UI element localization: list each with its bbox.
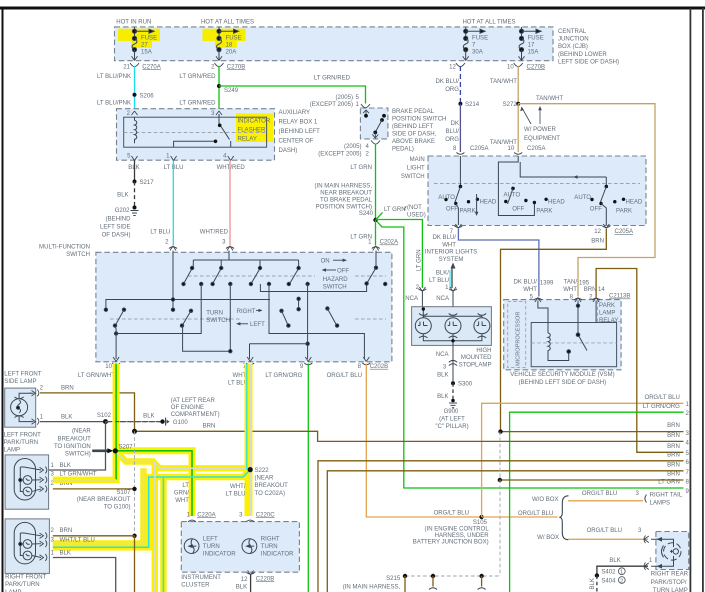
relay bottom pins 5 1 4 bbox=[132, 156, 138, 161]
svg-text:C270A: C270A bbox=[142, 64, 161, 70]
svg-text:PARK: PARK bbox=[599, 303, 615, 309]
svg-text:BRN: BRN bbox=[60, 528, 73, 534]
svg-text:BLK: BLK bbox=[60, 463, 71, 469]
svg-text:C2113B: C2113B bbox=[609, 294, 630, 300]
svg-text:LT GRN: LT GRN bbox=[417, 249, 423, 271]
ground G202 bbox=[133, 206, 137, 210]
svg-text:BRN: BRN bbox=[667, 452, 680, 458]
svg-text:C270B: C270B bbox=[527, 64, 546, 70]
svg-text:S206: S206 bbox=[140, 93, 155, 99]
svg-text:OFF: OFF bbox=[337, 269, 349, 275]
S207 to C220A yellow halo bbox=[115, 451, 192, 516]
svg-text:(NEAR: (NEAR bbox=[72, 429, 91, 435]
svg-text:HOT AT ALL TIMES: HOT AT ALL TIMES bbox=[201, 20, 254, 26]
svg-text:SWITCH): SWITCH) bbox=[65, 452, 91, 458]
S215 dashed splice linkage bbox=[499, 432, 501, 576]
svg-text:TURN: TURN bbox=[206, 310, 223, 316]
high mounted stoplamp box bbox=[412, 307, 492, 346]
splice S105 bbox=[479, 515, 483, 519]
wire BLK S102 down to left park/turn pin 1 bbox=[44, 422, 106, 470]
relay pin 3 arrow bbox=[216, 111, 222, 115]
svg-text:14: 14 bbox=[598, 287, 605, 293]
svg-text:S402: S402 bbox=[601, 570, 616, 576]
hazard blades bbox=[184, 268, 192, 283]
MLS pin 12 C205A bbox=[602, 226, 610, 228]
svg-text:PARK/STOP/: PARK/STOP/ bbox=[651, 580, 687, 586]
wire BLK from relay pin 5 bbox=[134, 161, 136, 182]
svg-text:HIGH: HIGH bbox=[476, 348, 491, 354]
svg-text:C205A: C205A bbox=[527, 146, 546, 152]
svg-text:PARK: PARK bbox=[536, 209, 552, 215]
svg-text:(NOT: (NOT bbox=[407, 205, 422, 211]
svg-text:S249: S249 bbox=[224, 88, 239, 94]
wire ORG/LT BLU pin 8 to S105 bbox=[366, 364, 481, 518]
svg-text:ABOVE BRAKE: ABOVE BRAKE bbox=[392, 139, 435, 145]
svg-text:HEAD: HEAD bbox=[480, 200, 497, 206]
svg-text:TO G100): TO G100) bbox=[104, 505, 131, 511]
wire LT GRN/RED from fuse 18 bbox=[218, 66, 220, 110]
svg-text:LT GRN: LT GRN bbox=[658, 480, 680, 486]
svg-text:(AT LEFT REAR: (AT LEFT REAR bbox=[171, 398, 216, 404]
svg-text:(BEHIND LOWER: (BEHIND LOWER bbox=[558, 52, 607, 58]
svg-text:PARK: PARK bbox=[616, 209, 632, 215]
splice S222 bbox=[248, 467, 253, 472]
svg-text:LAMPS: LAMPS bbox=[650, 500, 671, 506]
cluster pin 12 C220B bbox=[247, 571, 255, 576]
svg-text:POSITION SWITCH): POSITION SWITCH) bbox=[316, 205, 372, 211]
svg-text:BRN: BRN bbox=[584, 287, 597, 293]
svg-text:C202B: C202B bbox=[370, 364, 389, 370]
svg-text:ORG: ORG bbox=[445, 87, 459, 93]
right rear park/stop/turn lamp bbox=[656, 532, 689, 570]
main light switch bbox=[428, 156, 646, 226]
svg-text:C220C: C220C bbox=[256, 512, 275, 518]
svg-text:LT GRN/ORG: LT GRN/ORG bbox=[265, 373, 302, 379]
svg-text:INSTRUMENT: INSTRUMENT bbox=[181, 575, 221, 581]
svg-text:NCA: NCA bbox=[436, 296, 450, 302]
svg-text:LAMP: LAMP bbox=[4, 448, 20, 454]
internal wiring bbox=[104, 251, 387, 360]
exit 7 BRN from off-page bbox=[327, 471, 683, 592]
svg-text:TAN/WHT: TAN/WHT bbox=[536, 96, 563, 102]
splice S214 bbox=[458, 102, 462, 106]
svg-text:S215: S215 bbox=[386, 576, 401, 582]
svg-text:OF ENGINE: OF ENGINE bbox=[171, 405, 204, 411]
svg-text:USED): USED) bbox=[407, 213, 426, 219]
svg-text:BRN: BRN bbox=[61, 386, 74, 392]
stoplamp bulb 3 bbox=[474, 314, 490, 338]
bus B bbox=[106, 300, 270, 310]
wire LT GRN S240 down to C202A pin 1 bbox=[375, 220, 377, 246]
svg-text:C220A: C220A bbox=[197, 512, 216, 518]
svg-text:BREAKOUT: BREAKOUT bbox=[58, 436, 92, 442]
splice S240 bbox=[373, 218, 377, 222]
fuse F17 15A bbox=[519, 27, 542, 61]
svg-text:LEFT FRONT: LEFT FRONT bbox=[4, 372, 41, 378]
connector pin 12 bbox=[456, 63, 465, 67]
svg-text:TAN/WHT: TAN/WHT bbox=[490, 79, 517, 85]
bus C right bbox=[260, 284, 366, 292]
svg-text:DK BLU/: DK BLU/ bbox=[435, 79, 459, 85]
svg-text:SYSTEM: SYSTEM bbox=[439, 257, 464, 263]
svg-text:AUTO: AUTO bbox=[503, 193, 520, 199]
svg-text:LT GRN/WHT: LT GRN/WHT bbox=[78, 373, 115, 379]
switch group 2 bbox=[498, 156, 565, 216]
connector C270B pin 10 bbox=[514, 63, 523, 67]
fuse F27 15A bbox=[132, 27, 155, 61]
WHT/LT BLU pin7 down to S222 halo bbox=[245, 364, 253, 517]
svg-text:C202A: C202A bbox=[380, 240, 399, 246]
svg-text:HAZARD: HAZARD bbox=[323, 277, 348, 283]
wire BRN side lamp pin2 right/down bbox=[40, 393, 135, 431]
svg-text:"C" PILLAR): "C" PILLAR) bbox=[435, 424, 468, 430]
svg-text:BLK: BLK bbox=[117, 193, 128, 199]
svg-text:15A: 15A bbox=[141, 50, 153, 56]
svg-text:S214: S214 bbox=[465, 102, 480, 108]
svg-text:OFF: OFF bbox=[446, 207, 458, 213]
left turn indicator bbox=[184, 539, 199, 554]
switch group 3 bbox=[520, 162, 643, 225]
svg-text:OFF: OFF bbox=[590, 207, 602, 213]
svg-text:ORG/LT BLU: ORG/LT BLU bbox=[587, 528, 622, 534]
svg-text:(BEHIND LEFT SIDE OF DASH): (BEHIND LEFT SIDE OF DASH) bbox=[519, 380, 607, 386]
wire LT GRN down to S240 bbox=[375, 144, 377, 221]
svg-text:C205A: C205A bbox=[470, 146, 489, 152]
svg-text:FUSE: FUSE bbox=[528, 36, 544, 42]
svg-text:G100: G100 bbox=[173, 420, 188, 426]
svg-text:S222: S222 bbox=[255, 468, 270, 474]
svg-text:MULTI-FUNCTION: MULTI-FUNCTION bbox=[39, 244, 90, 250]
svg-text:S272: S272 bbox=[503, 102, 518, 108]
svg-text:OF DASH): OF DASH) bbox=[102, 233, 131, 239]
svg-text:NEAR BREAKOUT: NEAR BREAKOUT bbox=[320, 190, 372, 196]
auxiliary relay box 1 bbox=[117, 109, 275, 161]
svg-text:POSITION SWITCH: POSITION SWITCH bbox=[392, 117, 446, 123]
right turn indicator bbox=[242, 539, 257, 554]
svg-text:DASH): DASH) bbox=[279, 148, 298, 154]
svg-text:LT BLU: LT BLU bbox=[150, 230, 170, 236]
wire LT GRN/WHT pin10 down to S207 (yellow halo) bbox=[113, 364, 120, 484]
svg-text:17: 17 bbox=[528, 43, 535, 49]
svg-text:LT BLU/PNK: LT BLU/PNK bbox=[97, 74, 131, 80]
svg-text:TURN: TURN bbox=[203, 544, 220, 550]
svg-text:ORG/LT BLU: ORG/LT BLU bbox=[644, 395, 679, 401]
wire BRN lamp pin2 to S107 bbox=[53, 488, 135, 490]
svg-text:NCA: NCA bbox=[436, 352, 450, 358]
svg-text:BATTERY JUNCTION BOX): BATTERY JUNCTION BOX) bbox=[413, 539, 489, 545]
MLS pin 7 bbox=[454, 226, 462, 228]
svg-text:BRN: BRN bbox=[203, 423, 216, 429]
svg-text:TO C202A): TO C202A) bbox=[255, 491, 285, 497]
svg-text:WHT/LT BLU: WHT/LT BLU bbox=[60, 537, 95, 543]
svg-text:10: 10 bbox=[507, 146, 514, 152]
svg-text:(IN ENGINE CONTROL: (IN ENGINE CONTROL bbox=[425, 526, 490, 532]
connector C270A pin 21 bbox=[130, 63, 139, 67]
svg-text:BLU/: BLU/ bbox=[446, 129, 460, 135]
splice S300 bbox=[451, 381, 455, 385]
svg-text:WHT: WHT bbox=[175, 498, 189, 504]
svg-text:1399: 1399 bbox=[540, 281, 554, 287]
svg-text:SWITCH: SWITCH bbox=[206, 318, 230, 324]
svg-text:DK BLU/: DK BLU/ bbox=[432, 235, 456, 241]
splice S272 bbox=[516, 102, 520, 106]
svg-text:1: 1 bbox=[620, 570, 623, 576]
svg-text:WHT/RED: WHT/RED bbox=[200, 230, 229, 236]
svg-text:JUNCTION: JUNCTION bbox=[558, 37, 589, 43]
svg-text:21: 21 bbox=[123, 64, 130, 70]
svg-text:(2005): (2005) bbox=[336, 95, 353, 101]
fuse 18 highlight bbox=[203, 29, 246, 41]
svg-text:LT BLU/PNK: LT BLU/PNK bbox=[97, 101, 131, 107]
svg-text:30A: 30A bbox=[472, 50, 484, 56]
svg-text:S240: S240 bbox=[359, 211, 374, 217]
svg-text:LT BLU: LT BLU bbox=[226, 492, 246, 498]
svg-text:18: 18 bbox=[226, 43, 233, 49]
wire BRN VSM pin2 up/right/down to exit 5 bbox=[596, 269, 683, 453]
svg-text:27: 27 bbox=[141, 43, 148, 49]
wire WHT/RED from relay pin 4 bbox=[229, 161, 231, 246]
svg-text:ORG/LT BLU: ORG/LT BLU bbox=[327, 373, 362, 379]
svg-text:S207: S207 bbox=[119, 444, 134, 450]
svg-text:12: 12 bbox=[594, 229, 601, 235]
svg-text:W/O BOX: W/O BOX bbox=[532, 497, 559, 503]
svg-text:BLK/: BLK/ bbox=[436, 271, 449, 277]
svg-text:FUSE: FUSE bbox=[226, 36, 242, 42]
dots rows bbox=[190, 266, 193, 269]
indicator flasher relay (inner) bbox=[124, 117, 267, 147]
svg-text:12: 12 bbox=[449, 64, 456, 70]
svg-text:HEAD: HEAD bbox=[548, 200, 565, 206]
exit 2 LT GRN/ORG bbox=[510, 412, 684, 592]
svg-text:ORG/LT BLU: ORG/LT BLU bbox=[434, 511, 469, 517]
exit 6 BRN from off-page bbox=[318, 461, 684, 592]
svg-text:SIDE LAMP: SIDE LAMP bbox=[4, 379, 36, 385]
svg-text:LT GRN/RED: LT GRN/RED bbox=[314, 76, 351, 82]
fuse F7 30A bbox=[463, 27, 485, 61]
svg-text:SWITCH: SWITCH bbox=[401, 174, 425, 180]
svg-text:HOT IN RUN: HOT IN RUN bbox=[116, 20, 151, 26]
svg-text:G900: G900 bbox=[444, 409, 459, 415]
svg-text:15A: 15A bbox=[528, 50, 540, 56]
svg-text:SIDE OF DASH,: SIDE OF DASH, bbox=[392, 132, 437, 138]
svg-text:(NEAR BREAKOUT: (NEAR BREAKOUT bbox=[77, 497, 131, 503]
svg-text:PARK: PARK bbox=[460, 209, 476, 215]
svg-text:ORG/LT BLU: ORG/LT BLU bbox=[518, 511, 553, 517]
svg-text:CENTRAL: CENTRAL bbox=[558, 29, 587, 35]
svg-text:ON: ON bbox=[321, 259, 330, 265]
svg-text:INTERIOR LIGHTS: INTERIOR LIGHTS bbox=[425, 249, 477, 255]
svg-text:DK BLU/: DK BLU/ bbox=[513, 280, 537, 286]
svg-text:ORG/LT BLU: ORG/LT BLU bbox=[582, 491, 617, 497]
splice S107 bbox=[132, 487, 136, 491]
svg-text:(AT LEFT: (AT LEFT bbox=[439, 416, 465, 422]
svg-text:EQUIPMENT: EQUIPMENT bbox=[524, 136, 560, 142]
splice S249 bbox=[217, 84, 221, 88]
vehicle security module VSM bbox=[504, 300, 621, 370]
pin3 bus A bbox=[228, 251, 230, 261]
svg-text:S105: S105 bbox=[473, 520, 488, 526]
svg-text:SWITCH: SWITCH bbox=[323, 284, 347, 290]
right tail lamps W/O BOX branch bbox=[568, 500, 643, 502]
svg-text:TURN: TURN bbox=[261, 544, 278, 550]
svg-text:RELAY BOX 1: RELAY BOX 1 bbox=[279, 120, 318, 126]
svg-text:W/ POWER: W/ POWER bbox=[524, 127, 557, 133]
svg-text:GRN/: GRN/ bbox=[174, 491, 189, 497]
svg-text:BRN: BRN bbox=[667, 472, 680, 478]
wire cores bbox=[115, 364, 117, 480]
svg-text:BLK: BLK bbox=[609, 558, 620, 564]
splice S206 bbox=[133, 93, 137, 97]
svg-text:S102: S102 bbox=[97, 413, 112, 419]
wire LT GRN/RED to brake pedal position switch bbox=[219, 86, 366, 104]
svg-text:INDICATOR: INDICATOR bbox=[261, 552, 294, 558]
wire TAN/WHT from S272 to right bbox=[518, 104, 655, 297]
relay pin 2 arrow bbox=[132, 111, 138, 115]
svg-text:(BEHIND LEFT: (BEHIND LEFT bbox=[279, 129, 321, 135]
park lamp relay label bbox=[598, 301, 621, 322]
wire DK BLU/ORG solid to MLS pin 8 bbox=[459, 104, 461, 152]
svg-text:MOUNTED: MOUNTED bbox=[461, 355, 492, 361]
wire LT GRN S240 branch to exit 9 bbox=[377, 222, 684, 489]
central junction box CJB bbox=[115, 27, 554, 61]
svg-text:C220B: C220B bbox=[256, 576, 274, 582]
svg-text:2: 2 bbox=[620, 578, 623, 584]
W/ BOX branch to right rear lamp bbox=[568, 538, 648, 540]
svg-text:LEFT: LEFT bbox=[250, 322, 265, 328]
BLK wire from rear lamp bbox=[597, 566, 648, 575]
svg-text:10: 10 bbox=[507, 64, 514, 70]
svg-text:WHT/RED: WHT/RED bbox=[217, 165, 246, 171]
svg-text:BOX (CJB): BOX (CJB) bbox=[558, 44, 588, 50]
svg-text:NCA: NCA bbox=[405, 296, 419, 302]
svg-text:RIGHT REAR: RIGHT REAR bbox=[651, 572, 689, 578]
svg-text:BRN: BRN bbox=[667, 423, 680, 429]
svg-text:BRAKE PEDAL: BRAKE PEDAL bbox=[392, 109, 435, 115]
svg-text:BRN: BRN bbox=[667, 462, 680, 468]
splice S217 bbox=[133, 180, 137, 184]
svg-text:20A: 20A bbox=[226, 50, 238, 56]
svg-text:VEHICLE SECURITY MODULE (VSM): VEHICLE SECURITY MODULE (VSM) bbox=[510, 372, 614, 378]
svg-text:INDICATOR: INDICATOR bbox=[238, 119, 271, 125]
svg-text:WHT: WHT bbox=[563, 287, 577, 293]
svg-text:BLK: BLK bbox=[236, 585, 247, 591]
dashed BLK to G100 bbox=[106, 421, 161, 423]
LT GRN stub (NOT USED) bbox=[376, 213, 383, 221]
svg-text:RIGHT: RIGHT bbox=[237, 309, 256, 315]
short contact stub bbox=[298, 299, 300, 309]
wire ORG/LT BLU S105 up to exit 1 bbox=[482, 403, 684, 517]
wire LT BLU from relay pin 1 bbox=[172, 161, 174, 246]
svg-text:HARNESS, UNDER: HARNESS, UNDER bbox=[435, 533, 490, 539]
svg-text:(IN MAIN HARNESS,: (IN MAIN HARNESS, bbox=[343, 584, 401, 590]
pin2 vertical bbox=[172, 251, 174, 310]
exit 8 BRN from S215 dashed bbox=[500, 479, 684, 481]
svg-text:WHT/: WHT/ bbox=[230, 484, 246, 490]
ground G100 bbox=[160, 419, 164, 423]
multi-function switch bbox=[96, 252, 392, 361]
dashed BLK over bundle (redraw) bbox=[108, 421, 161, 423]
fuse 27 highlight bbox=[118, 29, 160, 41]
svg-text:PARK/TURN: PARK/TURN bbox=[5, 582, 40, 588]
white branch down to right front pin3 halo bbox=[53, 468, 144, 543]
svg-text:LT: LT bbox=[182, 483, 189, 489]
wire BRN pin12 down-left-down to splice area bbox=[501, 229, 607, 432]
svg-text:MAIN: MAIN bbox=[410, 157, 425, 163]
off page pair halo bbox=[152, 462, 158, 592]
svg-text:BLK: BLK bbox=[437, 394, 448, 400]
svg-text:S107: S107 bbox=[116, 490, 131, 496]
svg-text:WHT: WHT bbox=[442, 243, 456, 249]
svg-text:DK: DK bbox=[451, 121, 459, 127]
svg-text:RIGHT TAIL: RIGHT TAIL bbox=[650, 492, 683, 498]
wire BLK right front pin1 right/down off-page bbox=[53, 558, 116, 592]
svg-text:MICROPROCESSOR: MICROPROCESSOR bbox=[516, 312, 522, 366]
svg-text:RIGHT: RIGHT bbox=[261, 537, 280, 543]
ground G900 bbox=[451, 399, 455, 403]
svg-text:RELAY: RELAY bbox=[599, 318, 618, 324]
svg-text:BLK: BLK bbox=[590, 578, 596, 589]
brake pedal position switch bbox=[360, 108, 388, 139]
svg-text:BRN: BRN bbox=[667, 433, 680, 439]
internal dashed guides bbox=[188, 275, 315, 277]
splice on BRN to right front lamp bbox=[132, 534, 136, 538]
svg-text:CLUSTER: CLUSTER bbox=[181, 583, 210, 589]
relay switch bbox=[218, 114, 220, 125]
park lamp relay inner bbox=[531, 323, 616, 367]
relay coil bbox=[135, 117, 137, 143]
svg-text:BRN: BRN bbox=[667, 444, 680, 450]
splice S102 bbox=[103, 419, 108, 424]
svg-text:S217: S217 bbox=[140, 180, 155, 186]
svg-text:BREAKOUT: BREAKOUT bbox=[255, 483, 289, 489]
svg-text:CENTER OF: CENTER OF bbox=[279, 139, 314, 145]
svg-text:C205A: C205A bbox=[615, 229, 634, 235]
wire BLK side lamp pin1 to S102 bbox=[40, 421, 106, 423]
svg-text:AUXILIARY: AUXILIARY bbox=[279, 110, 310, 116]
stoplamp bottom pin 3 bbox=[452, 345, 454, 383]
svg-text:LT GRN: LT GRN bbox=[350, 165, 372, 171]
stoplamp bulb 2 bbox=[445, 314, 461, 338]
svg-text:BLK: BLK bbox=[61, 414, 72, 420]
svg-text:W/ BOX: W/ BOX bbox=[537, 535, 559, 541]
bottom pins 10 7 9 8 bbox=[113, 357, 119, 362]
stoplamp internal wires bbox=[423, 309, 482, 318]
svg-text:LT GRN/ORG: LT GRN/ORG bbox=[643, 404, 680, 410]
wire DK BLU/WHT pin7 to VSM pin 5 bbox=[458, 229, 539, 297]
feeds to bottom pins bbox=[116, 284, 201, 334]
svg-text:HOT AT ALL TIMES: HOT AT ALL TIMES bbox=[462, 20, 515, 26]
svg-text:LEFT: LEFT bbox=[203, 537, 218, 543]
svg-text:OFF: OFF bbox=[512, 207, 524, 213]
svg-text:LAMP: LAMP bbox=[599, 311, 615, 317]
wire DK BLU/ORG (dashed) from fuse 7 bbox=[459, 66, 461, 104]
connector C270B pin 2 bbox=[215, 63, 224, 67]
svg-text:(BEHIND LEFT: (BEHIND LEFT bbox=[392, 124, 434, 130]
svg-text:WHT: WHT bbox=[523, 287, 537, 293]
svg-text:TURN LAMP: TURN LAMP bbox=[653, 588, 688, 592]
svg-text:S404: S404 bbox=[601, 578, 616, 584]
svg-text:195: 195 bbox=[579, 281, 590, 287]
svg-text:LEFT SIDE: LEFT SIDE bbox=[100, 225, 130, 231]
svg-text:(NEAR: (NEAR bbox=[255, 476, 274, 482]
wire LT BLU/PNK (cyan) bbox=[134, 66, 136, 110]
svg-text:(BEHIND: (BEHIND bbox=[106, 217, 131, 223]
svg-text:BLK: BLK bbox=[60, 551, 71, 557]
wire TAN/WHT from fuse 17 bbox=[517, 66, 519, 104]
svg-text:G202: G202 bbox=[115, 208, 130, 214]
switch group 1 bbox=[438, 156, 497, 225]
svg-text:10: 10 bbox=[105, 364, 112, 370]
